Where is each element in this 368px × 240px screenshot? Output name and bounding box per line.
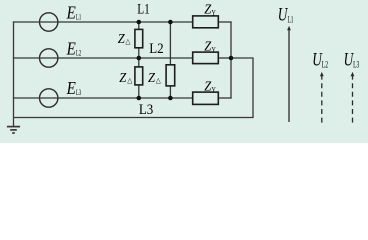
svg-text:L1: L1 [76, 11, 81, 21]
wire wye vertical [230, 21, 232, 98]
wire neutral right vertical [252, 58, 254, 118]
resistor Z_Y2 [193, 52, 219, 64]
svg-text:E: E [66, 39, 76, 59]
svg-text:Z: Z [204, 80, 211, 95]
resistor Z_delta3 (L1-L3) [166, 65, 175, 86]
ground [7, 127, 20, 133]
svg-text:L2: L2 [76, 47, 81, 57]
wire L2 left segment [13, 57, 39, 59]
svg-text:L1: L1 [288, 14, 294, 24]
wire Z_Y3 right [218, 97, 231, 99]
voltage arrow U_L2 (dashed) [320, 72, 324, 123]
svg-text:L3: L3 [76, 87, 81, 97]
svg-text:L3: L3 [353, 60, 360, 70]
svg-text:Z: Z [204, 40, 211, 55]
wire Z_delta1 bottom stub [138, 48, 140, 58]
svg-text:E: E [66, 78, 76, 98]
voltage arrow U_L1 (solid) [287, 26, 291, 122]
wire neutral stub from star point [231, 57, 254, 59]
svg-text:Z: Z [118, 32, 125, 47]
svg-text:L3: L3 [139, 102, 153, 118]
resistor Z_Y1 [193, 16, 219, 28]
wire Z_Y2 right [218, 57, 231, 59]
svg-text:△: △ [125, 38, 131, 45]
wire Z_delta2 top stub [138, 58, 140, 67]
svg-text:E: E [66, 3, 76, 23]
svg-text:Z: Z [148, 71, 155, 86]
wire Z_delta3 top stub (crosses L2) [169, 22, 171, 65]
wire Z_Y1 right [218, 21, 231, 23]
source E_L2 [40, 49, 58, 67]
svg-text:L2: L2 [149, 41, 163, 57]
svg-text:Y: Y [212, 46, 216, 55]
wire Z_delta1 top stub [138, 22, 140, 29]
node L2/Zd1-Zd2 junction [137, 56, 142, 61]
wire L1 main segment [57, 21, 193, 23]
resistor Z_Y3 [193, 92, 219, 104]
svg-text:L2: L2 [322, 60, 328, 70]
wire L3 main segment [57, 97, 193, 99]
wire L2 main segment [57, 57, 193, 59]
source E_L1 [40, 13, 58, 31]
wire neutral bottom [14, 117, 254, 119]
svg-text:Y: Y [212, 86, 216, 95]
resistor Z_delta2 (L2-L3) [135, 67, 143, 85]
svg-text:Z: Z [119, 71, 126, 86]
svg-text:△: △ [127, 77, 133, 84]
svg-text:Z: Z [204, 2, 211, 17]
wire L1 left segment [13, 21, 39, 23]
wire left vertical bus [13, 21, 15, 126]
svg-text:△: △ [156, 77, 162, 84]
wire Z_delta3 bottom stub [169, 86, 171, 98]
wire Z_delta2 bottom stub [138, 85, 140, 98]
source E_L3 [40, 89, 58, 107]
voltage arrow U_L3 (dashed) [351, 72, 355, 123]
wire L3 left segment [13, 97, 39, 99]
node L1/Zd1 junction [137, 20, 142, 25]
node L3/Zd2 junction [137, 96, 142, 101]
node L1/Zd3 junction [168, 20, 173, 25]
node L3/Zd3 junction [168, 96, 173, 101]
svg-text:Y: Y [212, 8, 216, 17]
node star point junction [229, 56, 234, 61]
resistor Z_delta1 (L1-L2) [135, 29, 143, 47]
svg-text:L1: L1 [137, 1, 150, 17]
